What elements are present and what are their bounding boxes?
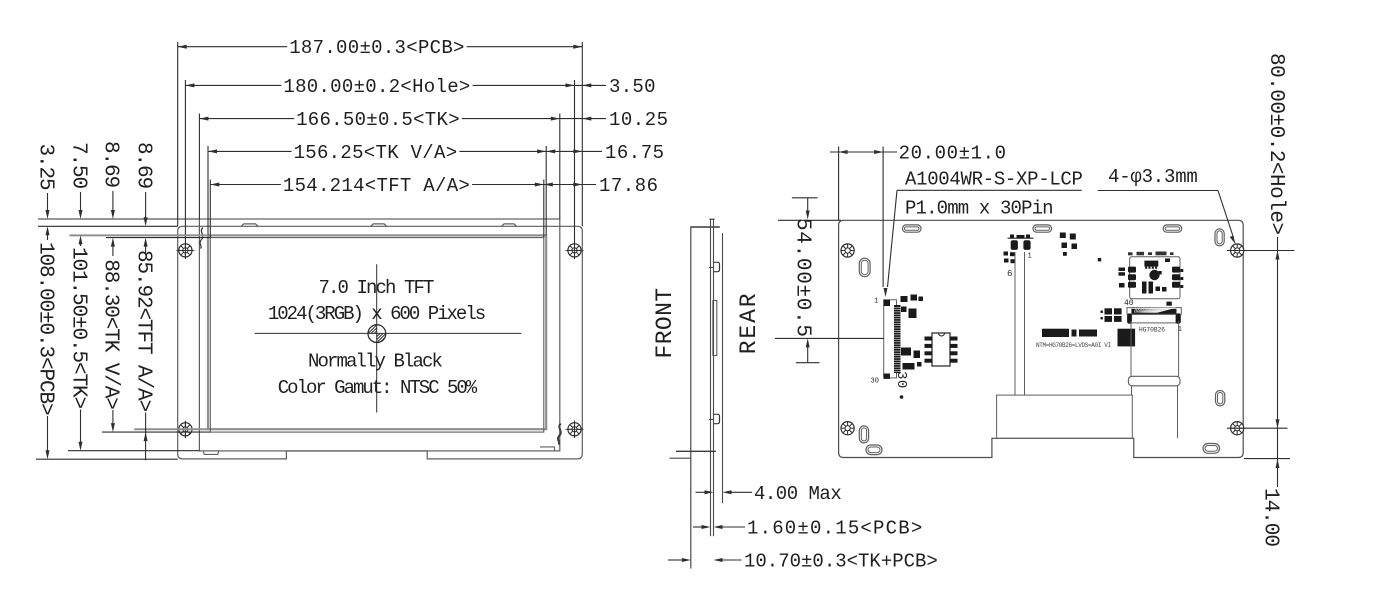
dimension 180.00 arrows <box>185 83 194 87</box>
svg-text:3.50: 3.50 <box>609 76 656 98</box>
svg-text:Color Gamut: NTSC 50%: Color Gamut: NTSC 50% <box>278 377 478 399</box>
rear parts cluster J <box>1105 308 1113 314</box>
rear slot vertical bottom-right <box>1216 391 1225 406</box>
rear IC box right outside ticks <box>1181 269 1184 272</box>
connector CN1 pin30 pad <box>884 374 890 379</box>
front view active area rect <box>210 238 544 433</box>
side view stiffener rect <box>713 301 717 356</box>
hole center tick top-right <box>566 249 584 251</box>
svg-text:6: 6 <box>1007 269 1012 279</box>
dimension 4.00 Max leader <box>696 491 705 493</box>
front view touch-panel glass outline <box>199 219 559 451</box>
rear IC U2 body <box>932 333 950 366</box>
side view hook clip top <box>714 262 720 271</box>
front view mounting hole top-right <box>568 244 581 257</box>
display center horizontal line <box>255 332 522 334</box>
rear pcb bottom ext line right <box>1244 458 1290 460</box>
rear part number leader <box>888 190 898 287</box>
extension line AA top left <box>106 237 210 239</box>
dimension 166.50 text <box>294 110 462 128</box>
dimension 8.69 second arrows <box>145 192 147 218</box>
rear slot vertical top-left <box>859 258 870 277</box>
touch connector top cap <box>1008 237 1034 239</box>
svg-text:180.00±0.2<Hole>: 180.00±0.2<Hole> <box>283 76 470 98</box>
extension line VA bottom left <box>134 428 208 430</box>
rear 4-phi3.3 arrow <box>1230 236 1236 245</box>
front view viewing area rect (gray) <box>208 235 546 429</box>
svg-text:101.50±0.5<TK>: 101.50±0.5<TK> <box>66 247 89 409</box>
dimension 180.00 hole line <box>185 84 574 86</box>
rear mounting hole top-right <box>1231 244 1244 257</box>
dimension 14.00 arrow <box>1276 459 1280 468</box>
dimension 20.00 line <box>830 151 897 153</box>
svg-text:NTM=HG70B26=LVDS=A0I VI: NTM=HG70B26=LVDS=A0I VI <box>1036 342 1111 349</box>
svg-text:7.0 Inch TFT: 7.0 Inch TFT <box>318 277 434 299</box>
dimension 101.50 bottom arrow <box>80 410 82 443</box>
rear IC box bottom parts <box>1142 282 1147 294</box>
rear lone dot <box>1098 258 1101 261</box>
side view TK glass top cap <box>710 218 715 220</box>
svg-text:54.00±0.5: 54.00±0.5 <box>790 218 813 338</box>
dimension 80.00 line <box>1277 237 1279 459</box>
extension line TK right <box>559 114 561 220</box>
dimension 10.25 line <box>560 118 606 120</box>
rear slot vertical top-right <box>1215 229 1224 246</box>
svg-text:16.75: 16.75 <box>605 142 665 164</box>
dimension 187.00 PCB line <box>178 46 583 48</box>
extension line TK top left <box>38 218 199 220</box>
dimension 3.50 arrow <box>582 83 591 87</box>
rear hole ref line top-right <box>1227 250 1295 252</box>
svg-text:108.00±0.3<PCB>: 108.00±0.3<PCB> <box>33 242 56 415</box>
front view touch-panel bottom-left tab <box>203 451 219 455</box>
svg-text:187.00±0.3<PCB>: 187.00±0.3<PCB> <box>289 37 465 59</box>
extension line VA left <box>207 146 209 235</box>
extension line VA right <box>545 146 547 235</box>
dimension 16.75 arrows <box>546 149 555 153</box>
svg-text:80.00±0.2<Hole>: 80.00±0.2<Hole> <box>1264 53 1287 235</box>
connector CN2 end lugs <box>1127 313 1132 323</box>
dimension 88.30 bottom arrow <box>112 410 114 423</box>
svg-text:8.69: 8.69 <box>99 141 122 188</box>
dimension 156.25 arrows <box>208 149 217 153</box>
svg-text:8.69: 8.69 <box>131 142 154 189</box>
side view FPC bulge line <box>722 233 724 503</box>
dimension 187.00 text <box>287 39 467 57</box>
touch FPC trace pair <box>1014 252 1016 395</box>
front view top edge tab 1 <box>241 224 258 226</box>
svg-text:A1004WR-S-XP-LCP: A1004WR-S-XP-LCP <box>905 168 1083 190</box>
extension line TK bottom left <box>68 450 199 452</box>
front view top edge tab 3 <box>502 224 517 226</box>
rear IC box tiny marks above <box>1128 252 1133 255</box>
front view FPC break squiggle right <box>558 424 561 445</box>
svg-text:156.25<TK V/A>: 156.25<TK V/A> <box>294 142 458 164</box>
front view mounting hole top-left <box>179 244 192 257</box>
display center vertical line <box>376 264 378 412</box>
svg-text:REAR: REAR <box>736 291 762 354</box>
connector CN2 lower lip <box>1129 314 1179 323</box>
touch connector pads <box>1011 240 1018 250</box>
dimension 20.00 ext line pin1 <box>882 147 884 288</box>
dimension 54.00 lower arrow <box>806 338 810 347</box>
dimension 156.25 text <box>292 143 460 161</box>
rear IC box right column parts <box>1172 267 1180 273</box>
rear mounting hole bottom-left <box>841 422 854 435</box>
rear IC box left outside parts <box>1119 268 1126 272</box>
svg-text:7.50: 7.50 <box>66 142 89 189</box>
rear part number underline <box>897 189 1082 191</box>
connector CN2 40pin outline <box>1127 308 1181 315</box>
rear IC box header <box>1144 261 1158 267</box>
rear IC box left column parts <box>1128 267 1136 273</box>
side view bottom cap <box>676 450 716 452</box>
extension line PCB bottom left <box>36 458 178 460</box>
rear slot top 1 <box>903 225 922 232</box>
svg-text:14.00: 14.00 <box>1258 488 1281 546</box>
front view PCB outline <box>178 226 583 459</box>
svg-text:Normally Black: Normally Black <box>308 351 443 373</box>
extension line TK left <box>198 114 200 220</box>
rear slot horizontal bottom-right <box>1203 444 1220 454</box>
dimension 7.50 arrows <box>80 192 82 211</box>
dimension 10.25 arrow <box>582 117 591 121</box>
dimension 17.86 arrows <box>544 183 553 187</box>
dimension 20.00 ext line pcb left <box>838 147 840 221</box>
svg-text:10.70±0.3<TK+PCB>: 10.70±0.3<TK+PCB> <box>744 551 938 573</box>
dimension 108.00 bottom arrow <box>47 416 49 451</box>
front view touch-panel bottom-right step <box>540 447 555 451</box>
extension line hole left center <box>184 80 186 259</box>
rear leader arrow to CN1 <box>884 288 888 297</box>
front view mounting hole bottom-right <box>568 423 581 436</box>
dimension 3.50 line <box>575 84 607 86</box>
svg-text:4-φ3.3mm: 4-φ3.3mm <box>1108 166 1198 188</box>
dimension 14.00 stem <box>1277 459 1279 487</box>
connector CN1 pin1 pad <box>884 300 890 306</box>
rear slot top 3 <box>1163 225 1182 232</box>
rear mounting hole bottom-right <box>1231 422 1244 435</box>
dimension 54.00 top ref line <box>778 219 841 221</box>
svg-text:20.00±1.0: 20.00±1.0 <box>899 143 1007 165</box>
extension line AA bottom left <box>102 431 210 433</box>
rear 4-phi3.3 leader <box>1218 191 1234 239</box>
dimension 154.214 text <box>281 176 472 194</box>
hole center tick top-left <box>176 249 194 251</box>
extension line hole right center <box>574 80 576 259</box>
dimension 54.00 lower T-bar <box>796 362 820 364</box>
extension line PCB left edge <box>177 42 179 226</box>
svg-text:154.214<TFT A/A>: 154.214<TFT A/A> <box>283 175 470 197</box>
rear mounting hole top-left <box>841 244 854 257</box>
rear slot horizontal bottom-left <box>866 445 882 455</box>
dimension 3.25 arrows <box>47 193 49 211</box>
front view mounting hole bottom-left <box>179 423 192 436</box>
dimension 187.00 arrows <box>178 45 187 49</box>
rear backlight window rect <box>997 395 1133 438</box>
dimension 17.86 line <box>544 184 596 186</box>
side view front face line <box>690 228 692 569</box>
connector CN2 comb <box>1131 309 1176 314</box>
extension line VA top left <box>70 234 209 236</box>
rear marking text line1 <box>1042 329 1069 337</box>
svg-text:1: 1 <box>874 298 878 306</box>
svg-text:166.50±0.5<TK>: 166.50±0.5<TK> <box>296 109 460 131</box>
svg-text:40: 40 <box>1124 299 1134 308</box>
hole center tick bottom-left <box>176 428 194 430</box>
extension line AA left <box>209 180 211 238</box>
dimension 180.00 text <box>281 77 472 95</box>
side view bottom pcb line <box>670 457 692 459</box>
svg-text:1024(3RGB) x 600 Pixels: 1024(3RGB) x 600 Pixels <box>268 303 485 325</box>
svg-text:HG70B26: HG70B26 <box>1139 327 1165 334</box>
rear LVDS trace pair <box>1130 321 1132 376</box>
touch connector side parts <box>1004 252 1009 256</box>
svg-text:FRONT: FRONT <box>652 287 678 358</box>
hole center tick bottom-right <box>566 428 584 430</box>
rear view PCB outline <box>839 220 1244 457</box>
dimension 85.92 bottom arrow <box>145 413 147 461</box>
connector CN1 pin comb <box>894 305 901 373</box>
dimension 154.214 AA line <box>210 184 544 186</box>
dimension 54.00 lower ref line <box>775 337 884 339</box>
rear IC box outline <box>1130 257 1180 299</box>
dimension 1.60 leader <box>693 526 702 528</box>
side view hook clip bottom <box>714 414 720 423</box>
extension line AA right <box>543 180 545 238</box>
svg-text:10.25: 10.25 <box>609 109 669 131</box>
rear small parts cluster mid <box>1060 233 1066 239</box>
rear IC U2 pins <box>925 337 933 341</box>
front view top edge tab 2 <box>371 224 387 226</box>
rear small parts near CN1 <box>901 296 908 302</box>
hole right bottom center line <box>574 421 576 438</box>
extension line PCB top left <box>38 225 178 227</box>
svg-text:1: 1 <box>1028 253 1032 261</box>
rear slot vertical bottom-left <box>859 426 868 443</box>
svg-text:17.86: 17.86 <box>599 175 659 197</box>
dimension 80.00 arrows <box>1276 251 1280 260</box>
svg-text:1.60±0.15<PCB>: 1.60±0.15<PCB> <box>747 518 923 540</box>
rear IC U3 black square <box>1118 329 1136 347</box>
rear backlight bar <box>1128 376 1180 386</box>
svg-text:85.92<TFT A/A>: 85.92<TFT A/A> <box>131 250 154 412</box>
dimension 20.00 arrows <box>839 150 848 154</box>
svg-text:30: 30 <box>893 371 909 389</box>
rear hole ref line bottom-right <box>1227 427 1288 429</box>
extension line PCB right edge <box>581 42 583 226</box>
rear trace below bar left <box>1131 386 1133 395</box>
dimension 166.50 TK line <box>199 118 559 120</box>
svg-text:88.30<TK V/A>: 88.30<TK V/A> <box>99 259 122 409</box>
rear slot top 2 <box>1033 225 1052 232</box>
svg-text:3.25: 3.25 <box>33 144 56 191</box>
dimension 156.25 VA line <box>208 150 546 152</box>
side view top cap <box>690 226 720 228</box>
front view FPC break squiggle left <box>200 228 203 249</box>
rear 40pin pin1 mark <box>1166 302 1171 306</box>
dimension 8.69 first arrows <box>112 191 114 211</box>
hole left bottom center line <box>184 421 186 438</box>
dimension 166.50 arrows <box>199 117 208 121</box>
side view TK glass pair <box>710 219 712 536</box>
dimension 10.70 leader <box>668 559 682 561</box>
dimension 54.00 upper T-bar <box>792 197 818 199</box>
svg-text:P1.0mm x 30Pin: P1.0mm x 30Pin <box>905 197 1053 219</box>
svg-text:4.00 Max: 4.00 Max <box>754 483 841 505</box>
dimension 16.75 line <box>546 150 602 152</box>
rear 4-phi3.3 underline <box>1098 190 1218 192</box>
connector CN1 30pin outline <box>884 300 897 378</box>
dimension 154.214 arrows <box>210 183 219 187</box>
svg-text:30: 30 <box>871 378 879 386</box>
rear IC box center blob <box>1149 270 1159 280</box>
rear trace below bar right <box>1177 386 1179 438</box>
